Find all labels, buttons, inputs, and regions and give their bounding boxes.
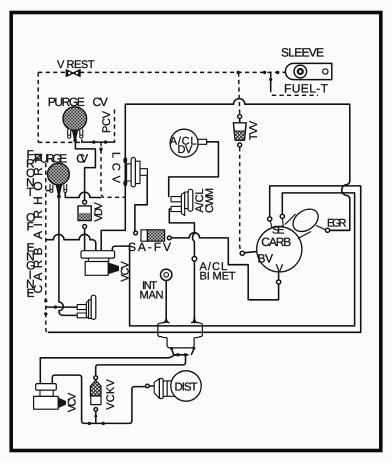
wire purge1 legs to PCV junction (y142) [82,140,115,142]
junction dot wire B left [88,422,91,425]
component A/CL DV (circle) [170,129,206,157]
component VDV (valve, white top / hatched bottom) [78,200,91,228]
wire INT MAN port circle down to bar (flared foot) [164,280,169,322]
component DIST diaphragm and circle [146,371,202,401]
svg-text:CWM: CWM [204,188,216,213]
junction dot on top dashed line left of FUEL-T drop [263,71,266,74]
BV port circle [240,251,244,255]
svg-text:PURGE: PURGE [48,95,85,109]
wire TVV dashed line lower to CARB BV circle [240,147,242,251]
wire TVV dashed line mid [238,102,240,115]
component SLEEVE [285,63,331,79]
wire CARB BV stub [244,252,257,253]
junction dot on top dashed line at TVV [237,71,240,74]
component VCV bottom-left (flange, body, black cone) [34,384,66,410]
svg-text:VCV: VCV [67,392,79,412]
svg-text:SLEEVE: SLEEVE [281,46,324,60]
component LCV (valve on vertical line) [123,157,147,187]
wire B: VCV port2 right-down-right-up to DIST [52,375,145,423]
svg-text:CARB: CARB [261,235,291,249]
svg-text:CV: CV [76,152,88,166]
junction dot on FUEL-T drop [269,78,272,81]
EGR stub from horn [316,226,325,230]
component A/CL CWM right (cone with two prongs) [171,189,193,215]
wire A: VCV port1 up and right to INT MAN junction row [40,355,176,384]
svg-text:VCV: VCV [119,261,131,282]
svg-text:BI MET: BI MET [200,270,236,282]
wire TVV top stub [239,119,241,123]
wire V REST dashed top line to SLEEVE [38,71,287,73]
component TVV (thermal vent valve) [233,115,246,147]
svg-text:DIST: DIST [175,382,198,394]
junction dot y142 right [104,140,107,143]
wire SE left port riser and outer wrap (down right side, along bottom to dashed corner) [49,186,361,332]
component CARB (circle with ports) [240,205,329,285]
wire purge2 right leg horizontal (hops VDV line) to dashed junction [65,192,101,197]
wire purge2 left leg dashed stub [46,190,50,192]
component SA-FV (solenoid, white + hatched) [134,230,172,241]
wire INT MAN bottom port stubs to junction row [172,349,194,355]
port circle A/CL BI MET [192,257,197,262]
svg-text:LCV: LCV [110,152,122,184]
SE horn oval on carb [285,214,311,239]
wire V REST dashed box bottom edge [38,141,81,143]
wire VCKV top to INT MAN junction row [96,355,186,376]
junction dot on top prong wire [54,305,57,308]
wire right CWM bottom prong to BI-MET line [169,209,194,223]
component VCV center (bar, body, black cone) [81,251,119,276]
wire VCKV bottom to wire B [95,411,97,423]
svg-text:DV: DV [178,144,193,156]
svg-text:EGR: EGR [327,218,347,230]
wire carb-air-horn main: VCV bar up, jog, box edge up, across top, down right side (hop) to EGR [101,99,350,251]
wire dashed x101 from y142 junction down [101,142,125,197]
svg-text:VCKV: VCKV [105,379,117,410]
label FRONT OF ENGINE (stacked) [26,148,35,301]
wire VDV line lower segment to VCV bar [84,229,86,251]
wire FUEL-T drop (solid part) [270,72,272,88]
valve V REST (bowtie) [66,70,80,77]
junction dot on x101 dashed [99,148,102,151]
wire BI-MET line: bar top up through circle and hop to corner [193,261,195,323]
svg-text:AIR: AIR [31,210,45,239]
junction dot dashed line lower (left CWM) [44,312,47,315]
svg-text:SA-FV: SA-FV [128,240,171,254]
svg-text:MAN: MAN [140,290,164,302]
EGR port circle [325,228,329,232]
junction dot on top dashed line right of FUEL-T drop [276,71,279,74]
wire V REST dashed box left edge [37,72,39,142]
component A/CL CWM left (cone with two prongs) [77,295,96,319]
wire purge1 middle leg to VDV line [75,133,95,200]
junction dot dashed line upper (left CWM) [44,299,47,302]
wire CARB V stub [278,272,280,280]
junction dot wire B right [102,422,105,425]
svg-text:FUEL-T: FUEL-T [284,82,329,96]
wire SA-FV right port to CARB V port (hop over BI-MET line) [171,233,278,300]
component INT MAN manifold (bar + lower body) [158,322,203,350]
wire PCV dashed [114,110,116,143]
svg-text:V: V [276,263,284,275]
component PURGE CV 1 (crosshatched disc with 3 pins) [63,107,87,142]
wire TVV dashed line upper [238,72,241,101]
V port circle [277,280,281,284]
wire EGR port to vertical [329,229,348,231]
wire y239.5 from dashed line to VCV bar (two hops) [47,234,96,250]
wire BI-MET flared foot at bar [192,317,197,323]
svg-text:PCV: PCV [101,110,113,133]
junction dot y142 left [92,140,95,143]
wire carb air horn dashed vertical [46,163,49,332]
svg-text:V REST: V REST [57,59,95,71]
svg-text:CV: CV [93,95,108,109]
svg-text:VDV: VDV [93,202,105,222]
wire DIST port to diaphragm [149,385,154,387]
wire purge2 middle leg long drop to left CWM bottom prong (with side bulge) [59,199,77,316]
junction dot INT MAN row right [184,353,187,356]
wire left CWM top prong from dashed line [46,306,77,308]
svg-text:BV: BV [258,252,274,266]
component VCKV (check valve, hatched pentagon) [90,376,101,418]
wire LCV stem down to SA-FV left port [135,176,147,231]
wire FUEL-T dashed elbow [271,88,318,95]
SE port circle left [270,221,272,228]
svg-text:TVV: TVV [248,120,260,140]
component PURGE CV 2 (crosshatched disc with pins, black middle wedge) [48,163,70,198]
wire SE right port riser and inner wrap (to VCV bar right end) [112,193,354,326]
component INT MAN port (double circle) [161,269,172,280]
wire A/CL DV port to right CWM top prong [169,142,219,197]
SE port circle right [282,219,285,228]
junction dot INT MAN row left [176,353,179,356]
